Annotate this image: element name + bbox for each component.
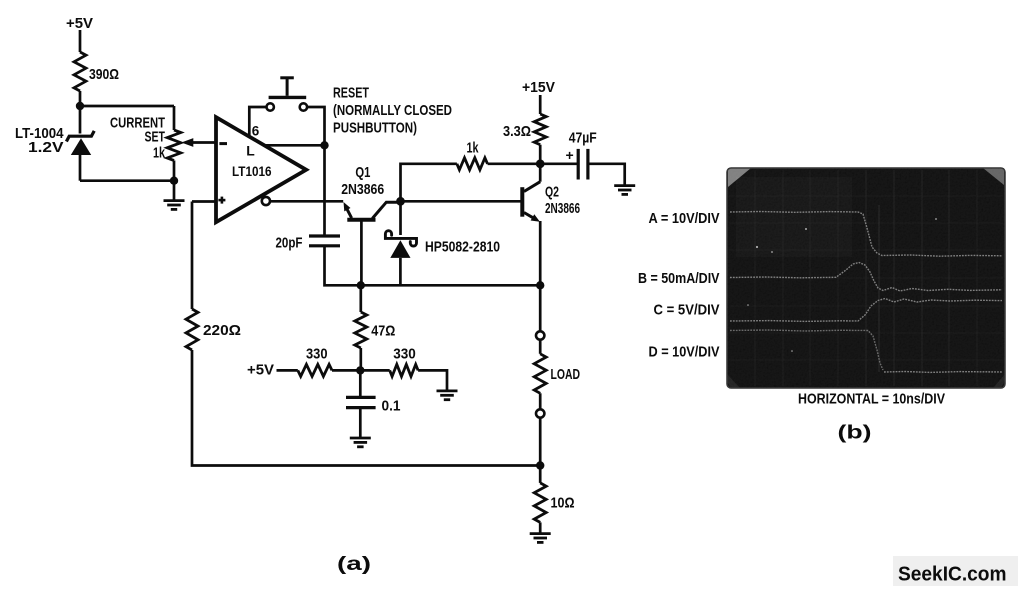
resistor 390&#937; (74, 52, 119, 91)
svg-text:D = 10V/DIV: D = 10V/DIV (649, 344, 720, 361)
svg-text:+5V: +5V (247, 362, 274, 379)
oscilloscope photo (b) (727, 168, 1005, 388)
svg-text:RESET: RESET (333, 84, 369, 101)
svg-text:(a): (a) (337, 553, 371, 575)
capacitor 20pF (276, 235, 341, 252)
terminal (load bottom) (536, 393, 544, 417)
svg-text:LT1016: LT1016 (232, 164, 272, 179)
wire node D to Q2 base (401, 200, 521, 203)
wire +15V to R3.3 (539, 95, 542, 114)
wire node H to R330b (360, 369, 389, 372)
label C = 5V/DIV (654, 302, 720, 319)
capacitor 47&#181;F polarity + (566, 147, 574, 163)
op-amp plus input label (218, 197, 225, 204)
svg-text:B = 50mA/DIV: B = 50mA/DIV (638, 270, 720, 287)
svg-text:20pF: 20pF (276, 235, 303, 252)
svg-text:1k: 1k (153, 145, 165, 162)
svg-text:0.1: 0.1 (382, 397, 401, 414)
svg-text:220Ω: 220Ω (203, 322, 241, 339)
label B = 50mA/DIV (638, 270, 720, 287)
svg-text:47µF: 47µF (569, 130, 597, 147)
wire 47uF to ground (588, 164, 625, 185)
potentiometer CURRENT SET 1k (110, 115, 181, 181)
node C junction (320, 141, 328, 149)
net +15V (522, 79, 555, 96)
wire node C down to 20pF (323, 145, 326, 236)
net +5V (top left) (66, 15, 93, 32)
wire plus input (192, 200, 216, 203)
wire mid rail (360, 284, 540, 287)
label D = 10V/DIV (649, 344, 720, 361)
wire Q2 emitter rail to load (539, 285, 542, 331)
op-amp minus input label (219, 142, 227, 145)
net +5V (330 row) (247, 362, 274, 379)
wire pushbutton left to pin 6 (249, 107, 266, 137)
svg-text:A = 10V/DIV: A = 10V/DIV (649, 210, 720, 227)
wire R3.3 to node E (539, 145, 542, 164)
wire R390 to node A (79, 91, 82, 106)
wire R330a to node H (332, 369, 360, 372)
diode D1 HP5082-2810 schottky (385, 201, 500, 285)
svg-text:C = 5V/DIV: C = 5V/DIV (654, 302, 720, 319)
node A junction (76, 102, 84, 110)
ground (below 10R) (530, 534, 551, 543)
svg-text:390Ω: 390Ω (89, 66, 119, 83)
svg-text:Q2: Q2 (545, 184, 559, 201)
svg-text:1k: 1k (467, 140, 479, 157)
node F junction (Q1 base / 47R) (357, 281, 365, 289)
wire node E to 47uF (540, 162, 578, 165)
svg-text:2N3866: 2N3866 (341, 181, 384, 198)
svg-text:HORIZONTAL = 10ns/DIV: HORIZONTAL = 10ns/DIV (798, 391, 945, 408)
watermark SeekIC.com (893, 556, 1018, 586)
transistor Q1 2N3866 (341, 164, 400, 220)
node D junction (Q1 collector bus) (396, 197, 405, 206)
svg-text:10Ω: 10Ω (551, 495, 575, 512)
svg-text:(b): (b) (838, 422, 872, 444)
wire 220R to bottom bus (192, 350, 540, 466)
svg-text:SET: SET (145, 129, 166, 146)
wire node F to 47R (359, 285, 362, 312)
svg-text:330: 330 (393, 345, 416, 362)
node E junction (536, 159, 545, 168)
wire Q2 emitter down (539, 221, 542, 285)
svg-text:+: + (566, 147, 574, 163)
svg-text:LOAD: LOAD (551, 366, 581, 383)
svg-text:1.2V: 1.2V (28, 139, 64, 156)
wire node A to pot top (80, 106, 174, 130)
capacitor 0.1 (346, 370, 401, 414)
caption (a) (337, 553, 371, 575)
resistor 47&#937; (355, 312, 396, 348)
terminal (load top) (536, 331, 544, 339)
svg-text:+15V: +15V (522, 79, 555, 96)
wire 47R to node H (359, 348, 362, 370)
wire node D up to 1k row (401, 164, 457, 202)
node G junction (Q2 emitter) (536, 281, 544, 289)
op-amp output bubble (262, 197, 270, 205)
ground (below 0.1) (350, 438, 371, 447)
resistor LOAD (534, 340, 580, 394)
ground (right of 47uF) (614, 186, 635, 195)
resistor 1k (457, 140, 488, 170)
diode LT-1004 1.2V zener (15, 106, 94, 181)
ground (below pot) (164, 181, 185, 210)
pin 6 label (252, 123, 260, 139)
resistor 220&#937; (186, 309, 241, 350)
svg-text:Q1: Q1 (355, 164, 370, 181)
svg-text:330: 330 (306, 345, 328, 362)
resistor 3.3&#937; (503, 114, 546, 145)
pushbutton RESET (normally closed) (267, 78, 308, 111)
wire R330b to ground (418, 370, 447, 390)
svg-text:SeekIC.com: SeekIC.com (898, 564, 1007, 586)
caption (b) (838, 422, 872, 444)
wire 0.1 to ground (359, 408, 362, 438)
svg-text:HP5082-2810: HP5082-2810 (425, 238, 500, 255)
resistor 10&#937; (534, 466, 574, 523)
svg-text:47Ω: 47Ω (371, 323, 395, 340)
wire +5V to R 390 (79, 30, 82, 52)
resistor 330 (right) (390, 345, 418, 376)
pot wiper arrow (181, 138, 216, 147)
svg-text:2N3866: 2N3866 (545, 200, 580, 217)
svg-text:L: L (246, 143, 255, 159)
node H junction (356, 366, 364, 374)
svg-text:3.3Ω: 3.3Ω (503, 123, 531, 140)
svg-text:(NORMALLY CLOSED: (NORMALLY CLOSED (333, 102, 452, 119)
wire pushbutton right to latch node (307, 107, 324, 145)
wire 1k to node E (488, 162, 541, 165)
label HORIZONTAL = 10ns/DIV (798, 391, 945, 408)
wire load to bottom bus (539, 418, 542, 466)
transistor Q2 2N3866 (522, 182, 580, 222)
label A = 10V/DIV (649, 210, 720, 227)
ground (right of 330) (437, 391, 458, 400)
wire 10R to ground (539, 522, 542, 533)
capacitor 47&#181;F (569, 130, 597, 180)
wire Q2 collector to node E (539, 164, 542, 182)
pin L label (246, 143, 255, 159)
svg-text:+5V: +5V (66, 15, 93, 32)
node B junction (pot bottom) (170, 177, 178, 185)
wire zener bottom to pot bottom (80, 179, 174, 182)
resistor 330 (left) (298, 345, 332, 376)
op-amp U1 LT1016 (216, 117, 306, 222)
label RESET text (333, 84, 452, 136)
svg-text:PUSHBUTTON): PUSHBUTTON) (333, 120, 417, 137)
wire plus input down to 220R (191, 202, 194, 310)
wire latch pin to node C (264, 144, 324, 147)
svg-text:6: 6 (252, 123, 260, 139)
wire output bubble to Q1 emitter (270, 200, 343, 203)
node I junction (bottom bus) (536, 461, 544, 469)
wire +5V to R330a (277, 369, 298, 372)
wire 20pF to bottom rail (325, 246, 361, 285)
wire Q1 base down (360, 220, 363, 286)
